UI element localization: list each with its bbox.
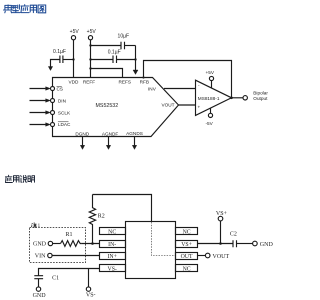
svg-text:INV: INV <box>148 86 157 91</box>
wire VIN to IN+ <box>52 255 99 257</box>
svg-text:C1: C1 <box>52 276 59 282</box>
node caps gnd junction <box>134 58 136 60</box>
wire GND to R1 <box>53 243 61 245</box>
svg-text:+5V: +5V <box>87 29 97 35</box>
pin box NC (R4) <box>176 265 198 272</box>
op-amp U2 triangle <box>196 80 232 115</box>
pin box IN+ (L3) <box>100 253 126 260</box>
wire R2 feedback to package top <box>93 195 152 222</box>
wire ground rail of caps <box>135 46 137 71</box>
resistor R1 <box>61 241 82 247</box>
pin AGNDS ground <box>134 137 136 146</box>
svg-text:AGNDF: AGNDF <box>102 131 119 136</box>
应 <box>21 5 29 13</box>
-5V supply terminal (op-amp) <box>208 113 212 117</box>
ground (VDD bypass) <box>48 67 52 71</box>
wire REFS connection <box>91 69 123 78</box>
terminal VS+ <box>218 216 223 221</box>
+5V supply terminal (REFF) <box>88 36 92 40</box>
wire C1 to GND terminal <box>38 279 40 287</box>
svg-text:VIN: VIN <box>35 254 46 260</box>
wire 10uF right <box>125 45 136 47</box>
labels: DAC pins <box>69 79 149 136</box>
wire VS- drop <box>88 269 90 287</box>
svg-text:C2: C2 <box>230 231 237 237</box>
terminal Bipolar Output <box>243 96 247 100</box>
svg-text:VOUT: VOUT <box>162 103 175 108</box>
svg-text:R2: R2 <box>98 213 105 219</box>
wire op-amp V+ <box>211 81 213 89</box>
svg-text:R1: R1 <box>66 232 73 238</box>
pin DGND ground <box>82 137 84 146</box>
capacitor C2 <box>233 240 237 247</box>
capacitor 10uF <box>121 42 125 50</box>
pin CS circle <box>51 87 55 91</box>
svg-text:REFF: REFF <box>83 79 95 84</box>
svg-text:IN-: IN- <box>108 242 116 248</box>
pin AGNDF ground <box>108 137 110 146</box>
pin LDAC input arrow <box>30 124 46 126</box>
wire op-amp V- <box>210 108 212 113</box>
svg-text:REFS: REFS <box>119 79 132 84</box>
用 <box>14 176 20 182</box>
capacitor 0.1uF (VDD bypass) <box>60 56 63 64</box>
node REFF/0.1uF junction <box>89 58 91 60</box>
node REFF/REFS junction <box>89 67 91 69</box>
capacitor C1 <box>34 276 43 279</box>
svg-text:NC: NC <box>183 266 191 272</box>
svg-text:RFB: RFB <box>140 79 149 84</box>
明 <box>28 176 35 183</box>
node VS+ junction <box>219 242 222 245</box>
svg-text:10µF: 10µF <box>118 33 130 39</box>
pin box VS+ (R2) <box>176 241 198 248</box>
pin box NC (L1) <box>100 228 126 235</box>
wire 10uF left <box>91 45 122 47</box>
svg-text:NC: NC <box>183 229 191 235</box>
svg-text:-5V: -5V <box>206 121 214 126</box>
wire 0.1uF right <box>117 59 136 61</box>
wire C2 to GND <box>237 243 253 245</box>
svg-text:CS: CS <box>57 87 64 92</box>
svg-text:VOUT: VOUT <box>213 254 230 260</box>
title 应用说明 (drawn glyphs) <box>5 175 34 182</box>
svg-text:NC: NC <box>108 229 116 235</box>
图 <box>38 5 46 13</box>
wire RFB feedback loop <box>144 61 232 98</box>
说 <box>21 176 27 183</box>
wire 0.1uF left <box>91 59 114 61</box>
DAC U1 body (pentagon) <box>53 78 179 137</box>
svg-text:0.1µF: 0.1µF <box>108 50 121 56</box>
svg-text:0.1µF: 0.1µF <box>53 49 66 55</box>
pin DIN input arrow <box>30 100 46 102</box>
svg-text:Bipolar: Bipolar <box>253 91 268 96</box>
wire REFF rail <box>90 40 92 78</box>
pin LDAC circle <box>51 123 55 127</box>
title 典型应用图 (drawn glyphs) <box>4 5 46 13</box>
terminal GND (bottom) <box>36 287 40 291</box>
svg-text:GND: GND <box>33 293 47 299</box>
典 <box>4 5 13 13</box>
node output/feedback junction <box>230 97 233 100</box>
pin SCLK circle <box>51 111 55 115</box>
wire R1 to IN- <box>82 243 100 245</box>
pin box VS- (L4) <box>100 265 126 272</box>
svg-text:+5V: +5V <box>70 29 80 35</box>
note box 注1 (dashed) <box>30 228 86 263</box>
svg-text:IN+: IN+ <box>108 254 117 260</box>
label 注1 <box>31 223 37 227</box>
wire VS+ row <box>198 243 234 245</box>
svg-text:SCLK: SCLK <box>58 110 71 115</box>
labels: top supplies <box>53 29 129 56</box>
+5V supply terminal (VDD) <box>71 36 75 40</box>
+5V supply terminal (op-amp) <box>209 76 213 80</box>
pin SCLK input arrow <box>30 112 46 114</box>
node VDD/C1 junction <box>72 58 74 60</box>
pin box NC (R1) <box>176 228 198 235</box>
wire cap to gnd corner <box>51 60 61 67</box>
svg-text:GND: GND <box>33 242 47 248</box>
pin DIN circle <box>51 99 55 103</box>
pin box IN- (L2) <box>100 241 126 248</box>
labels: bottom schematic (serif) <box>33 211 274 299</box>
svg-text:Output: Output <box>253 96 268 101</box>
svg-text:VDD: VDD <box>69 79 80 84</box>
node RFB junction <box>142 76 144 78</box>
ground (ref caps) <box>133 70 138 74</box>
svg-text:DIN: DIN <box>58 99 66 104</box>
svg-text:MS8188-1: MS8188-1 <box>198 96 220 101</box>
wire cap to VDD rail <box>63 59 74 61</box>
svg-text:VS-: VS- <box>108 266 117 272</box>
svg-text:OUT: OUT <box>181 254 193 260</box>
svg-text:DGND: DGND <box>75 131 89 136</box>
svg-text:+5V: +5V <box>206 70 215 75</box>
svg-text:VS+: VS+ <box>216 211 228 217</box>
svg-text:+: + <box>198 104 201 109</box>
wire INV to op-amp <box>164 88 196 90</box>
node R1/R2 junction <box>91 242 94 245</box>
svg-text:MS52532: MS52532 <box>96 103 119 109</box>
internal feedback (dashed) <box>152 222 176 256</box>
wire VS+ up <box>220 221 222 244</box>
svg-text:VS+: VS+ <box>181 242 192 248</box>
svg-text:GND: GND <box>260 242 274 248</box>
svg-text:VS-: VS- <box>86 293 96 299</box>
型 <box>12 5 20 13</box>
wire VDD rail <box>73 40 75 78</box>
terminal VIN <box>48 253 52 257</box>
resistor R2 <box>89 195 95 244</box>
用 <box>30 5 36 12</box>
wire op-amp output <box>232 97 244 99</box>
pin box OUT (R3) <box>176 253 198 260</box>
terminal GND (right) <box>253 241 258 246</box>
terminal GND (input) <box>48 241 52 245</box>
capacitor 0.1uF (REF bypass) <box>113 56 117 64</box>
node REFF/10uF junction <box>89 44 91 46</box>
svg-text:AGNDS: AGNDS <box>126 131 143 136</box>
应 <box>5 175 12 182</box>
pin CS input arrow <box>30 88 46 90</box>
wire VOUT to op-amp <box>179 104 196 106</box>
svg-text:LDAC: LDAC <box>58 122 71 127</box>
wire OUT to VOUT <box>198 255 206 257</box>
IC U3 body <box>126 222 176 279</box>
terminal VOUT <box>205 253 210 258</box>
terminal VS- <box>86 287 90 291</box>
wire VS- rail <box>39 269 100 277</box>
